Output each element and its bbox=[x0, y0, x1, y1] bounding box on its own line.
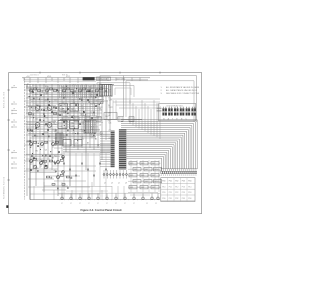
svg-text:Q2: Q2 bbox=[45, 111, 47, 113]
node bus ticks bbox=[60, 199, 159, 200]
svg-text:SW7: SW7 bbox=[145, 169, 149, 171]
wire stub bbox=[96, 89, 99, 92]
svg-text:R6: R6 bbox=[109, 115, 111, 117]
svg-text:Q28: Q28 bbox=[63, 127, 66, 129]
svg-text:LT1: LT1 bbox=[64, 143, 67, 145]
wire +5V top bus bbox=[22, 77, 150, 79]
IC U10 left bar hatch bbox=[111, 132, 115, 166]
resistor network RN1 row bbox=[60, 117, 142, 122]
wire bus horizontals upper bbox=[110, 99, 160, 108]
svg-text:CR5: CR5 bbox=[100, 102, 103, 104]
svg-text:Figure 3-2. Control Panel Cir: Figure 3-2. Control Panel Circuit bbox=[80, 208, 121, 212]
svg-text:CR23: CR23 bbox=[72, 110, 76, 112]
svg-text:R8: R8 bbox=[100, 134, 102, 136]
svg-text:C7: C7 bbox=[90, 86, 92, 88]
wire VCC top bus bbox=[24, 79, 148, 81]
signal tag boxes rows bbox=[128, 162, 162, 190]
svg-text:P11: P11 bbox=[169, 186, 172, 188]
capacitor C13 bbox=[46, 176, 49, 178]
svg-text:C7: C7 bbox=[79, 203, 81, 205]
svg-text:C23: C23 bbox=[99, 117, 102, 119]
wire left dashed rail bbox=[23, 78, 25, 200]
svg-text:Q2: Q2 bbox=[99, 125, 101, 127]
wire loop A drop bbox=[123, 76, 125, 117]
svg-text:Q22: Q22 bbox=[35, 119, 38, 121]
svg-text:P02: P02 bbox=[175, 181, 178, 183]
svg-text:P31: P31 bbox=[169, 198, 172, 200]
wire stub bbox=[52, 143, 55, 146]
svg-text:R24: R24 bbox=[53, 145, 56, 147]
node top bus junction drops bbox=[24, 77, 141, 83]
flipflop block U3 bbox=[70, 104, 79, 112]
svg-text:C7: C7 bbox=[36, 136, 38, 138]
svg-text:C3: C3 bbox=[53, 89, 55, 91]
svg-text:SW5: SW5 bbox=[130, 175, 134, 177]
svg-text:R20: R20 bbox=[99, 84, 102, 86]
svg-text:CR17: CR17 bbox=[99, 107, 103, 109]
svg-text:Q20: Q20 bbox=[72, 133, 75, 135]
svg-text:R26: R26 bbox=[45, 125, 48, 127]
diode CR20 bbox=[52, 184, 55, 186]
svg-text:C9: C9 bbox=[81, 106, 83, 108]
wire vertical rails bbox=[27, 84, 110, 200]
svg-text:CR9: CR9 bbox=[54, 163, 57, 165]
svg-text:Q8: Q8 bbox=[45, 149, 47, 151]
svg-text:C25: C25 bbox=[63, 95, 66, 97]
wire pin comb header line bbox=[161, 168, 198, 170]
capacitor C5 bbox=[105, 89, 107, 91]
connector legend box DS1 bbox=[159, 104, 196, 121]
svg-text:C13: C13 bbox=[35, 87, 38, 89]
svg-text:Q3: Q3 bbox=[111, 183, 113, 185]
svg-text:SW3: SW3 bbox=[145, 181, 149, 183]
svg-text:R14: R14 bbox=[71, 123, 74, 125]
svg-text:C21 R4 0.1: C21 R4 0.1 bbox=[30, 75, 39, 77]
svg-text:Q6: Q6 bbox=[54, 170, 56, 172]
svg-text:LT2: LT2 bbox=[75, 143, 78, 145]
svg-text:SW2: SW2 bbox=[141, 187, 145, 189]
transistor stub row below IC bbox=[103, 170, 127, 179]
svg-text:R0: R0 bbox=[27, 84, 29, 86]
svg-text:Q14: Q14 bbox=[72, 102, 75, 104]
label terminal names bbox=[13, 86, 15, 164]
svg-text:CR17: CR17 bbox=[45, 93, 49, 95]
svg-text:CR1: CR1 bbox=[35, 150, 38, 152]
svg-text:P22: P22 bbox=[175, 192, 178, 194]
svg-text:CR3: CR3 bbox=[108, 138, 111, 140]
svg-text:CR13: CR13 bbox=[90, 96, 94, 98]
diode CR21 bbox=[62, 184, 65, 186]
wire stub bbox=[63, 89, 66, 92]
svg-text:P03: P03 bbox=[182, 181, 185, 183]
svg-text:C2: C2 bbox=[146, 203, 148, 205]
svg-text:C15: C15 bbox=[81, 137, 84, 139]
svg-text:C1: C1 bbox=[36, 97, 38, 99]
node dark solder knots bbox=[29, 89, 98, 171]
svg-text:TP: TP bbox=[13, 86, 15, 88]
svg-text:C7: C7 bbox=[97, 203, 99, 205]
svg-text:C7: C7 bbox=[61, 203, 63, 205]
svg-text:C7: C7 bbox=[106, 203, 108, 205]
capacitor C12 bbox=[49, 160, 52, 162]
svg-text:Q8: Q8 bbox=[99, 99, 101, 101]
wire below-IC risers to bus bbox=[106, 186, 124, 200]
svg-text:R18: R18 bbox=[54, 106, 57, 108]
capacitor C9 bbox=[27, 129, 30, 131]
capacitor C8 bbox=[53, 113, 56, 115]
svg-text:R10: R10 bbox=[35, 94, 38, 96]
svg-text:Q22: Q22 bbox=[63, 97, 66, 99]
svg-text:P01: P01 bbox=[169, 181, 172, 183]
svg-text:P23: P23 bbox=[182, 192, 185, 194]
wire fine hatch overlay bbox=[26, 86, 104, 137]
svg-text:CR25: CR25 bbox=[36, 112, 40, 114]
svg-text:TP: TP bbox=[13, 109, 15, 111]
svg-text:Q4: Q4 bbox=[62, 102, 64, 104]
svg-text:SW7: SW7 bbox=[152, 175, 156, 177]
label stub row refs bbox=[104, 183, 127, 185]
svg-text:R22: R22 bbox=[90, 104, 93, 106]
svg-text:Q8: Q8 bbox=[125, 183, 127, 185]
label part number box bbox=[97, 77, 111, 81]
svg-text:TP: TP bbox=[13, 151, 15, 153]
svg-text:TP: TP bbox=[13, 162, 15, 164]
svg-text:R28: R28 bbox=[36, 104, 39, 106]
wire parallel line above bus bbox=[58, 192, 160, 194]
svg-text:R8: R8 bbox=[72, 92, 74, 94]
svg-text:R4: R4 bbox=[35, 143, 37, 145]
svg-text:R24: R24 bbox=[81, 123, 84, 125]
transistor Q31 bbox=[62, 171, 65, 174]
IC U10 left pin stubs bbox=[100, 132, 111, 167]
svg-text:CR5: CR5 bbox=[72, 116, 75, 118]
registration mark bbox=[6, 205, 8, 208]
svg-text:Q6: Q6 bbox=[82, 108, 84, 110]
svg-text:R16: R16 bbox=[63, 87, 66, 89]
comparator block U4 bbox=[58, 121, 67, 129]
relay K1 dark block bbox=[84, 120, 96, 133]
connector pin comb bbox=[161, 169, 197, 176]
svg-text:P12: P12 bbox=[175, 186, 178, 188]
svg-text:R6: R6 bbox=[81, 129, 83, 131]
svg-text:SW9: SW9 bbox=[130, 163, 134, 165]
svg-text:P04: P04 bbox=[188, 181, 191, 183]
svg-text:C17: C17 bbox=[100, 86, 103, 88]
svg-text:Q12: Q12 bbox=[53, 121, 56, 123]
capacitor C3 bbox=[70, 90, 73, 92]
transformer T1 dark block bbox=[56, 133, 64, 145]
wire risers to ground bus bbox=[34, 182, 102, 200]
svg-text:CR3: CR3 bbox=[54, 124, 57, 126]
svg-text:C21: C21 bbox=[108, 97, 111, 99]
wire routing loop A bbox=[100, 76, 197, 122]
capacitor C10 bbox=[31, 129, 33, 131]
wire stub bbox=[30, 160, 33, 163]
svg-text:ALL CAPACITANCE VALUES IN UF: ALL CAPACITANCE VALUES IN UF bbox=[166, 89, 198, 92]
wire row1 rail bbox=[26, 87, 108, 89]
svg-text:CR27: CR27 bbox=[81, 121, 85, 123]
svg-text:CR9: CR9 bbox=[108, 113, 111, 115]
svg-text:P33: P33 bbox=[182, 198, 185, 200]
svg-text:P14: P14 bbox=[188, 186, 191, 188]
IC U10 pin hatching bbox=[119, 130, 126, 168]
svg-text:Q18: Q18 bbox=[81, 113, 84, 115]
border frame bbox=[9, 73, 202, 214]
wire stub bbox=[41, 143, 44, 146]
svg-text:CLK OSC: CLK OSC bbox=[116, 78, 125, 80]
svg-text:R10: R10 bbox=[63, 112, 66, 114]
wire routing loop B bbox=[126, 81, 194, 122]
svg-text:R12: R12 bbox=[54, 156, 57, 158]
capacitor C1 bbox=[37, 90, 40, 92]
wire stub bbox=[79, 89, 82, 92]
wire main row bus A bbox=[24, 84, 114, 86]
capacitor bank on risers bbox=[63, 163, 107, 176]
capacitor C4 bbox=[87, 90, 90, 92]
svg-text:C13: C13 bbox=[63, 89, 66, 91]
svg-text:Q1: Q1 bbox=[118, 183, 120, 185]
capacitor C11 bbox=[55, 129, 57, 131]
svg-text:R2: R2 bbox=[72, 118, 74, 120]
svg-text:SW6: SW6 bbox=[141, 175, 145, 177]
svg-text:Q16: Q16 bbox=[36, 168, 39, 170]
wire routing loop C bbox=[97, 83, 130, 104]
IC U10 body right half bbox=[119, 129, 126, 169]
svg-text:SCHEMATIC NO 104: SCHEMATIC NO 104 bbox=[3, 176, 6, 199]
wire routing loop D bbox=[112, 86, 134, 98]
label input terminal column bbox=[11, 87, 17, 169]
wire lower horizontal ties bbox=[62, 186, 112, 188]
divider block U9 bbox=[104, 113, 117, 120]
svg-text:P24: P24 bbox=[188, 192, 191, 194]
IC U8 dark block bbox=[100, 85, 113, 97]
svg-text:SW1: SW1 bbox=[152, 163, 156, 165]
svg-text:C25: C25 bbox=[91, 137, 94, 139]
svg-text:Q14: Q14 bbox=[44, 100, 47, 102]
svg-text:C15: C15 bbox=[109, 123, 112, 125]
svg-text:VDD: VDD bbox=[47, 76, 52, 78]
label connector table cells bbox=[162, 181, 191, 200]
svg-text:C11: C11 bbox=[72, 125, 75, 127]
svg-text:Q4: Q4 bbox=[90, 88, 92, 90]
svg-text:ALL RESISTANCE VALUES IN OHMS: ALL RESISTANCE VALUES IN OHMS bbox=[166, 86, 200, 89]
wire third top bus bbox=[24, 81, 96, 83]
transistor Q15 bbox=[33, 165, 37, 169]
wire hatch near oscillator bbox=[107, 100, 116, 119]
wire tag rows to bus bbox=[128, 192, 158, 194]
svg-text:P30: P30 bbox=[162, 198, 165, 200]
svg-text:P10: P10 bbox=[162, 186, 165, 188]
svg-text:R2: R2 bbox=[44, 164, 46, 166]
svg-text:CR1: CR1 bbox=[63, 104, 66, 106]
svg-text:CR15: CR15 bbox=[82, 116, 86, 118]
connector table J2 bbox=[161, 178, 195, 202]
svg-text:R12: R12 bbox=[108, 90, 111, 92]
svg-text:Q12: Q12 bbox=[81, 139, 84, 141]
svg-text:SW6: SW6 bbox=[134, 169, 138, 171]
wire hatch columns right of U3 bbox=[81, 103, 99, 116]
wire tag rows verticals bbox=[131, 160, 159, 192]
svg-text:SW2: SW2 bbox=[134, 181, 138, 183]
wire stub bbox=[57, 176, 60, 179]
wire bottom ground bus bbox=[30, 199, 160, 201]
svg-text:SW0: SW0 bbox=[141, 163, 145, 165]
latch block U7 bbox=[74, 140, 82, 147]
svg-text:TP: TP bbox=[13, 120, 15, 122]
label notes block bbox=[161, 86, 200, 95]
svg-text:R4: R4 bbox=[63, 137, 65, 139]
wire risers with capacitors bbox=[64, 153, 106, 200]
wire bus verticals to fan bbox=[130, 100, 160, 139]
wire dense hatch upper mid bbox=[60, 85, 96, 98]
svg-text:C17: C17 bbox=[72, 100, 75, 102]
capacitor C6 bbox=[28, 113, 31, 115]
register block U5 bbox=[70, 121, 79, 129]
LED digit segments row bbox=[162, 107, 196, 116]
label CONTROL title block bbox=[83, 77, 95, 80]
svg-text:CR29: CR29 bbox=[72, 85, 76, 87]
bottom terminator row bbox=[61, 193, 160, 199]
capacitor gap parts bbox=[31, 97, 97, 189]
latch block U6 bbox=[63, 140, 71, 147]
capacitor C2 bbox=[53, 90, 56, 92]
svg-text:TP: TP bbox=[13, 125, 15, 127]
svg-text:CR15: CR15 bbox=[54, 114, 58, 116]
svg-text:SW3: SW3 bbox=[152, 187, 156, 189]
node junction dots upper block bbox=[26, 85, 100, 164]
svg-text:CR13: CR13 bbox=[62, 110, 66, 112]
svg-text:R18 1K: R18 1K bbox=[62, 75, 69, 77]
svg-text:SW1: SW1 bbox=[130, 187, 134, 189]
svg-text:Q24: Q24 bbox=[108, 130, 111, 132]
transistor Q12 large bbox=[47, 106, 52, 111]
transistor Q16 bbox=[44, 165, 48, 169]
transistor Q13 large bbox=[35, 123, 40, 128]
svg-text:P21: P21 bbox=[169, 192, 172, 194]
oscillator block Y1 bbox=[93, 97, 103, 104]
svg-text:8200-0199-300: 8200-0199-300 bbox=[4, 91, 6, 108]
svg-text:SEE TABLE FOR CONNECTOR PINS: SEE TABLE FOR CONNECTOR PINS bbox=[166, 92, 200, 95]
svg-text:TP: TP bbox=[13, 102, 15, 104]
svg-text:P13: P13 bbox=[182, 186, 185, 188]
svg-text:CR19: CR19 bbox=[36, 161, 40, 163]
IC U10 body left half bbox=[111, 131, 115, 168]
svg-text:Q26: Q26 bbox=[100, 94, 103, 96]
svg-text:R18: R18 bbox=[108, 120, 111, 122]
svg-text:CR7: CR7 bbox=[63, 135, 66, 137]
transistor Q11 large bbox=[35, 106, 40, 111]
svg-text:CR27: CR27 bbox=[109, 107, 113, 109]
svg-text:8200-019: 8200-019 bbox=[97, 79, 107, 81]
wire stub bbox=[40, 162, 43, 165]
svg-text:CR21: CR21 bbox=[81, 90, 85, 92]
svg-text:C2: C2 bbox=[155, 203, 157, 205]
svg-text:CR7: CR7 bbox=[91, 121, 94, 123]
flipflop block U2 bbox=[59, 104, 68, 112]
wire stub bbox=[30, 143, 33, 146]
svg-text:C1: C1 bbox=[90, 111, 92, 113]
svg-text:C11: C11 bbox=[44, 107, 47, 109]
svg-text:C5: C5 bbox=[45, 157, 47, 159]
svg-text:Q18: Q18 bbox=[109, 99, 112, 101]
wire horizontal interconnects bbox=[24, 90, 110, 194]
svg-text:Q10: Q10 bbox=[90, 119, 93, 121]
svg-text:C19: C19 bbox=[63, 120, 66, 122]
svg-text:C9: C9 bbox=[109, 92, 111, 94]
svg-text:CR11: CR11 bbox=[99, 132, 103, 134]
svg-text:R28: R28 bbox=[90, 134, 93, 136]
svg-text:P00: P00 bbox=[162, 181, 165, 183]
svg-text:R16: R16 bbox=[91, 129, 94, 131]
svg-text:CR23: CR23 bbox=[44, 132, 48, 134]
svg-text:Q0: Q0 bbox=[54, 131, 56, 133]
wire stub bbox=[46, 89, 49, 92]
svg-text:P32: P32 bbox=[175, 198, 178, 200]
svg-text:C27: C27 bbox=[54, 138, 57, 140]
svg-text:CR19: CR19 bbox=[90, 127, 94, 129]
svg-text:Q10: Q10 bbox=[36, 129, 39, 131]
svg-text:C29: C29 bbox=[99, 92, 102, 94]
svg-text:R0: R0 bbox=[81, 98, 83, 100]
svg-text:P20: P20 bbox=[162, 192, 165, 194]
svg-text:Q0: Q0 bbox=[108, 105, 110, 107]
svg-text:P34: P34 bbox=[188, 198, 191, 200]
wire gap fillers bbox=[26, 87, 104, 190]
label bottom component refs bbox=[61, 203, 157, 205]
capacitor C14 bbox=[66, 176, 69, 178]
svg-text:C7: C7 bbox=[88, 203, 90, 205]
svg-text:C19: C19 bbox=[35, 126, 38, 128]
svg-text:B A Y E N C: B A Y E N C bbox=[163, 118, 188, 121]
transistor Q30 bbox=[62, 156, 65, 159]
wire left riser main bbox=[29, 160, 31, 200]
wire stub bbox=[57, 161, 60, 164]
svg-text:C7: C7 bbox=[115, 203, 117, 205]
svg-text:C7: C7 bbox=[133, 203, 135, 205]
svg-text:Q16: Q16 bbox=[90, 94, 93, 96]
wire routing loop E bbox=[115, 88, 131, 95]
label scattered ref designators bbox=[27, 84, 113, 172]
wire stub bbox=[30, 89, 33, 92]
wire data bus cascade bbox=[121, 120, 197, 169]
svg-text:R20: R20 bbox=[45, 86, 48, 88]
wire mid bus to IC bbox=[63, 144, 111, 153]
svg-text:C7: C7 bbox=[124, 203, 126, 205]
capacitor C7 bbox=[43, 112, 45, 114]
transistor Q14 large bbox=[47, 123, 52, 128]
svg-text:C21: C21 bbox=[54, 99, 57, 101]
svg-text:C7: C7 bbox=[70, 203, 72, 205]
svg-text:R14: R14 bbox=[99, 109, 102, 111]
wire legend input stubs bbox=[157, 107, 162, 109]
svg-text:CR11: CR11 bbox=[45, 142, 49, 144]
svg-text:Q26: Q26 bbox=[72, 108, 75, 110]
svg-text:C3: C3 bbox=[81, 131, 83, 133]
svg-text:C5: C5 bbox=[73, 95, 75, 97]
svg-text:C29: C29 bbox=[45, 118, 48, 120]
frame tick marks bbox=[7, 72, 160, 180]
